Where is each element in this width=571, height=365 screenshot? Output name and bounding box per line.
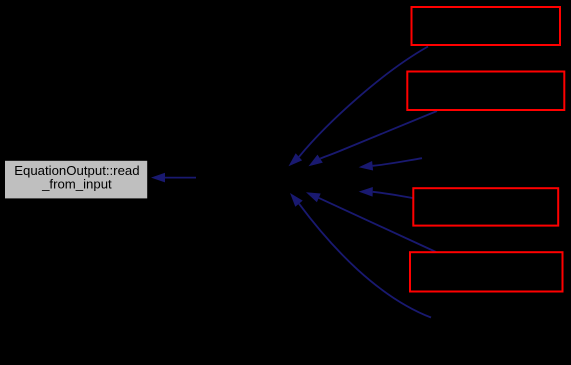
edge: hidden center node -> EquationOutput::read_from_input [165,177,196,179]
edge: hidden bottom node -> hidden center node [299,204,431,318]
arrowhead of edge 3 [359,161,373,171]
node: caller box 4 (red truncated node) [410,252,563,291]
arrowhead of edge 7 [151,173,165,183]
edge: caller box 2 -> hidden center node [320,111,437,159]
edge: hidden right node -> hidden center node [373,158,422,166]
arrowhead of edge 6 [290,193,303,207]
arrowhead of edge 4 [359,187,373,197]
node: caller box 3 (red truncated node) [413,188,558,225]
arrowhead of edge 5 [306,192,321,202]
svg-text:_from_input: _from_input [41,176,112,191]
node: caller box 2 (red truncated node) [407,72,564,111]
edge: caller box 4 -> hidden center node [319,198,436,252]
edge: caller box 1 -> hidden center node [299,47,428,157]
node: caller box 1 (red truncated node) [412,7,561,45]
node: EquationOutput::read_from_input (gray current node) [5,161,147,199]
arrowhead of edge 2 [309,155,323,167]
arrowhead of edge 1 [289,153,303,166]
edge: caller box 3 -> hidden center node [373,192,413,198]
